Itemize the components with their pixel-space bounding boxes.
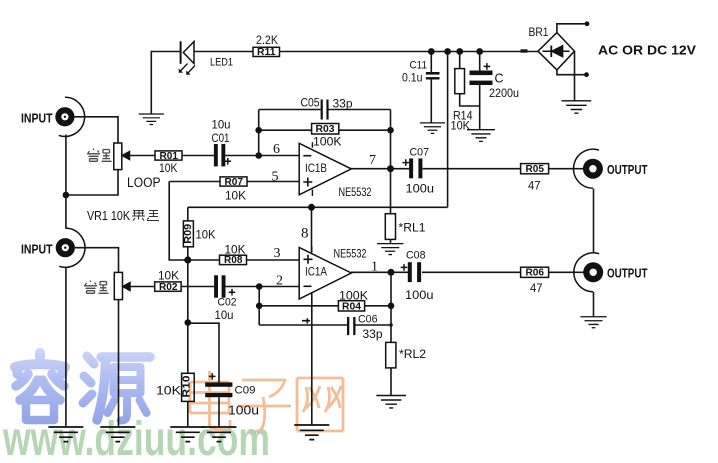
svg-text:C07: C07 [410,147,430,159]
node C11 tap [428,48,435,55]
ground BR1 [562,101,592,113]
svg-text:R02: R02 [159,282,178,293]
node pin6 feedback upper [255,127,262,134]
resistor R05 [521,164,549,174]
resistor R11 [253,47,280,56]
svg-text:100u: 100u [406,181,435,195]
svg-text:R09: R09 [183,223,194,243]
resistor RL1 vertical [385,214,395,240]
resistor R04 [338,301,364,311]
wire IC1A output to C08 to R06 to jack [351,271,584,273]
svg-text:C11: C11 [410,60,428,72]
svg-text:6: 6 [273,142,280,157]
wire pin 8 [311,207,313,252]
svg-text:R06: R06 [526,268,545,279]
op-amp IC1A triangle [299,246,351,299]
label 音量 pot1 [87,149,112,162]
input jack J2 [56,228,85,267]
wire LED to R11 [194,51,253,53]
svg-text:47: 47 [528,180,541,192]
svg-text:AC OR DC 12V: AC OR DC 12V [598,44,697,58]
svg-text:2200u: 2200u [489,88,519,100]
wire R03 row [259,129,391,131]
svg-text:100u: 100u [228,403,259,417]
resistor RL2 vertical [386,342,396,368]
wire BR1 top terminal [557,24,587,33]
svg-text:INPUT: INPUT [21,111,53,126]
watermark blue gradient def [0,0,1,1]
svg-text:LED1: LED1 [210,56,233,68]
wire R14 column and jog [460,52,480,107]
node C06 right [389,323,393,327]
wire feedback left column IC1B [258,110,260,156]
svg-text:10K: 10K [196,227,216,241]
svg-text:C05: C05 [301,97,320,109]
svg-text:BR1: BR1 [529,27,549,39]
svg-text:5: 5 [272,169,279,184]
resistor R07 [220,177,247,186]
wire R11 to BR1 [280,51,539,53]
wire supply down column [447,52,449,208]
wire jack2 to pot2 top [75,248,119,273]
output jack J3 [574,149,603,188]
svg-text:10u: 10u [215,308,234,322]
svg-text:0.1u: 0.1u [402,73,423,85]
svg-text:C02: C02 [218,296,237,308]
node IC1B output [387,165,394,172]
ground C11 [420,123,445,134]
svg-text:C09: C09 [235,384,256,396]
svg-text:LOOP: LOOP [127,175,161,190]
svg-text:10u: 10u [212,118,231,132]
svg-text:R07: R07 [225,177,244,188]
label plus C08 [401,264,408,271]
node BR1 top terminal [585,21,590,26]
watermark blue 容 [15,353,65,420]
capacitor C02 plates [214,275,225,297]
svg-text:33p: 33p [363,329,383,341]
svg-text:33p: 33p [333,98,353,110]
svg-text:C08: C08 [406,250,426,262]
potentiometer VR1a body [114,143,130,170]
wire C11 column [430,52,432,123]
wire wiper2 to R02 [130,286,155,288]
svg-text:C: C [495,72,504,86]
resistor R03 [312,124,339,135]
capacitor C11 plates [426,72,440,80]
label plus C01 [225,158,232,165]
svg-text:R08: R08 [224,255,243,266]
wire IC1A ground column [311,294,313,426]
node R04 right [388,303,395,310]
svg-text:10K: 10K [451,121,471,133]
svg-text:C06: C06 [358,314,378,326]
svg-text:3: 3 [274,246,281,261]
wire R08 row pin 3 [188,259,299,261]
wire BR1 ground column [574,51,576,101]
wire R09 column [187,207,189,322]
label plus C09 [209,373,216,380]
wire C06 row [259,324,391,326]
svg-text:2: 2 [276,273,283,288]
wire pot1 bottom to ground node [66,170,118,195]
node C tap [476,48,483,55]
wire jack1 to pot1 top [75,117,119,143]
node bias [184,256,191,263]
resistor R08 [220,255,247,264]
resistor R10 vertical [182,373,195,401]
wire feedback left column IC1A [258,287,260,326]
svg-text:IC1B: IC1B [305,163,327,175]
svg-text:IC1A: IC1A [305,266,327,278]
wire input ground column lower [65,267,67,427]
svg-text:10K: 10K [158,270,179,282]
output jack J4 [574,253,603,292]
wire feedback right column IC1B [390,110,392,169]
capacitor C06 plates [347,317,356,335]
svg-text:1: 1 [371,259,378,274]
node supply column tap [444,48,451,55]
input jack J1 [55,97,84,136]
label 雙連 [132,210,159,221]
ground RL1 [377,244,403,255]
node pin6 [255,152,262,159]
node pin8 tap [308,204,315,211]
wire loop column to bias node [169,182,188,261]
svg-text:INPUT: INPUT [21,242,53,257]
wire R02 to C02 [181,286,214,288]
svg-text:VR1 10K: VR1 10K [87,208,130,223]
svg-text:100u: 100u [405,288,434,302]
svg-text:R05: R05 [526,164,545,175]
svg-text:*RL1: *RL1 [399,221,426,235]
minus polarity dash on supply wire [521,49,528,52]
wire C 2200u column [479,52,481,130]
wire C09 jog [188,323,219,427]
capacitor C08 plates [408,262,421,282]
wire input ground column upper [65,135,67,229]
svg-text:R04: R04 [342,301,361,313]
svg-text:R10: R10 [182,375,193,398]
ground C09 [202,427,237,442]
resistor R14 vertical [455,69,465,94]
svg-text:100K: 100K [313,136,342,148]
resistor R09 vertical [183,221,193,247]
node R04 left [256,303,263,310]
capacitor C 2200u plates [470,71,493,86]
capacitor C05 plates [321,100,329,120]
label plus C [484,63,491,70]
capacitor C01 plates [214,144,225,166]
node IC1A output [388,269,395,276]
label plus C02 [229,289,236,296]
watermark blue 源 [83,356,150,421]
ground IC1A pin4 [294,425,329,440]
svg-text:OUTPUT: OUTPUT [607,162,648,177]
ground pot2 column [100,427,135,442]
wire C01 to pin 6 [225,155,299,157]
node pot1 bottom [63,192,70,199]
svg-text:10K: 10K [156,384,181,398]
svg-text:*RL2: *RL2 [399,347,426,361]
svg-text:www.dziuu.com: www.dziuu.com [2,413,270,458]
svg-text:R03: R03 [316,123,335,135]
wire wiper1 to R01 [130,155,156,157]
wire pot2 bottom to ground [118,300,120,427]
svg-text:C01: C01 [212,133,230,145]
wire RL2 column [390,272,392,395]
wire LED left + ground drop [151,52,180,115]
svg-text:R01: R01 [160,151,179,162]
watermark peach 电子网 [190,371,343,432]
wire pin 5 row [169,181,299,183]
ground output jacks [580,317,606,328]
LED1 symbol [179,41,195,75]
svg-text:10K: 10K [225,189,246,203]
ground input column [48,427,83,442]
svg-text:R11: R11 [257,47,276,58]
bridge rectifier BR1 [538,33,575,70]
wire RL1 column [390,169,392,244]
wire output jacks link and ground [593,189,595,317]
node R03 right [387,127,394,134]
node R14 tap [456,48,463,55]
ground LED [139,114,164,125]
wire C05 row [259,109,391,111]
svg-text:47: 47 [530,283,543,295]
op-amp IC1B triangle [299,142,351,196]
resistor R01 [155,151,182,160]
label plus C07 [403,159,410,166]
svg-text:10K: 10K [159,163,178,175]
svg-text:2.2K: 2.2K [256,35,278,47]
svg-text:8: 8 [301,225,309,241]
wire IC1B output to C07 to R05 to jack [351,168,584,170]
svg-text:7: 7 [369,153,376,168]
resistor R06 [521,267,549,277]
wire BR1 bottom terminal [557,70,587,75]
wire C02 to pin 2 [225,286,299,288]
ground C 2200u [467,130,495,142]
pin4 tick mark [302,318,310,323]
ground RL2 [376,396,406,408]
node BR1 bottom terminal [584,72,589,77]
svg-text:OUTPUT: OUTPUT [607,266,648,281]
node R10 top [185,319,192,326]
svg-text:NE5532: NE5532 [334,248,367,260]
resistor R02 [155,282,181,291]
potentiometer VR1b body [114,272,130,299]
wire mid supply rail [188,206,448,208]
wire R04 row [259,305,391,307]
capacitor C09 plates [205,382,232,397]
capacitor C07 plates [409,158,422,178]
wire R01 to C01 [182,155,214,157]
wire R10 column [187,323,189,427]
svg-text:NE5532: NE5532 [339,187,372,199]
ground R10 [170,427,205,442]
node pin2 [256,283,263,290]
label 音量 pot2 [84,281,109,294]
